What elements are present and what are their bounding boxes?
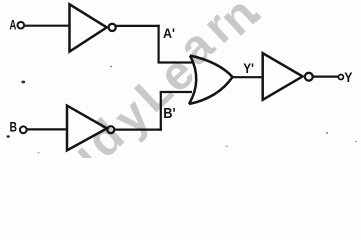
inverter U2 bubble bbox=[107, 126, 114, 133]
watermark StudyLearn. bbox=[6, 0, 275, 233]
output terminal Y bbox=[338, 75, 343, 80]
svg-text:Y': Y' bbox=[243, 61, 254, 77]
speck dot 5 bbox=[355, 141, 357, 143]
speck dot 6 bbox=[226, 146, 228, 148]
inverter U2 triangle bbox=[67, 106, 107, 151]
inverter U1 bubble bbox=[109, 24, 116, 31]
input terminal A bbox=[18, 22, 25, 29]
wire B' into OR gate bbox=[160, 91, 192, 93]
wire U1 output horizontal bbox=[116, 25, 160, 27]
wire A' into OR gate bbox=[158, 61, 194, 63]
wire U2 output horizontal bbox=[115, 129, 162, 131]
svg-text:A': A' bbox=[163, 25, 175, 41]
svg-text:B: B bbox=[10, 120, 18, 135]
inverter U4 bubble bbox=[305, 73, 313, 81]
speck dot 3 bbox=[110, 66, 113, 68]
svg-text:A: A bbox=[9, 17, 16, 32]
speck dot 1 bbox=[21, 81, 25, 84]
wire OR output Y' bbox=[233, 76, 264, 78]
speck dot 7 bbox=[38, 152, 40, 154]
wire B to inverter U2 bbox=[27, 128, 67, 130]
svg-text:StudyLearn.: StudyLearn. bbox=[6, 0, 275, 158]
svg-text:Y: Y bbox=[344, 70, 353, 86]
wire B' vertical bbox=[160, 92, 162, 131]
speck dot 2 bbox=[7, 135, 10, 138]
inverter U4 triangle bbox=[263, 53, 303, 100]
wire A' vertical bbox=[158, 25, 160, 63]
svg-text:B': B' bbox=[163, 105, 175, 122]
wire U4 output bbox=[313, 75, 338, 77]
inverter U1 triangle bbox=[70, 4, 107, 51]
speck dot 4 bbox=[326, 132, 328, 134]
wire A to inverter U1 bbox=[24, 25, 70, 27]
input terminal B bbox=[20, 126, 27, 133]
OR gate U3 bbox=[189, 56, 233, 105]
